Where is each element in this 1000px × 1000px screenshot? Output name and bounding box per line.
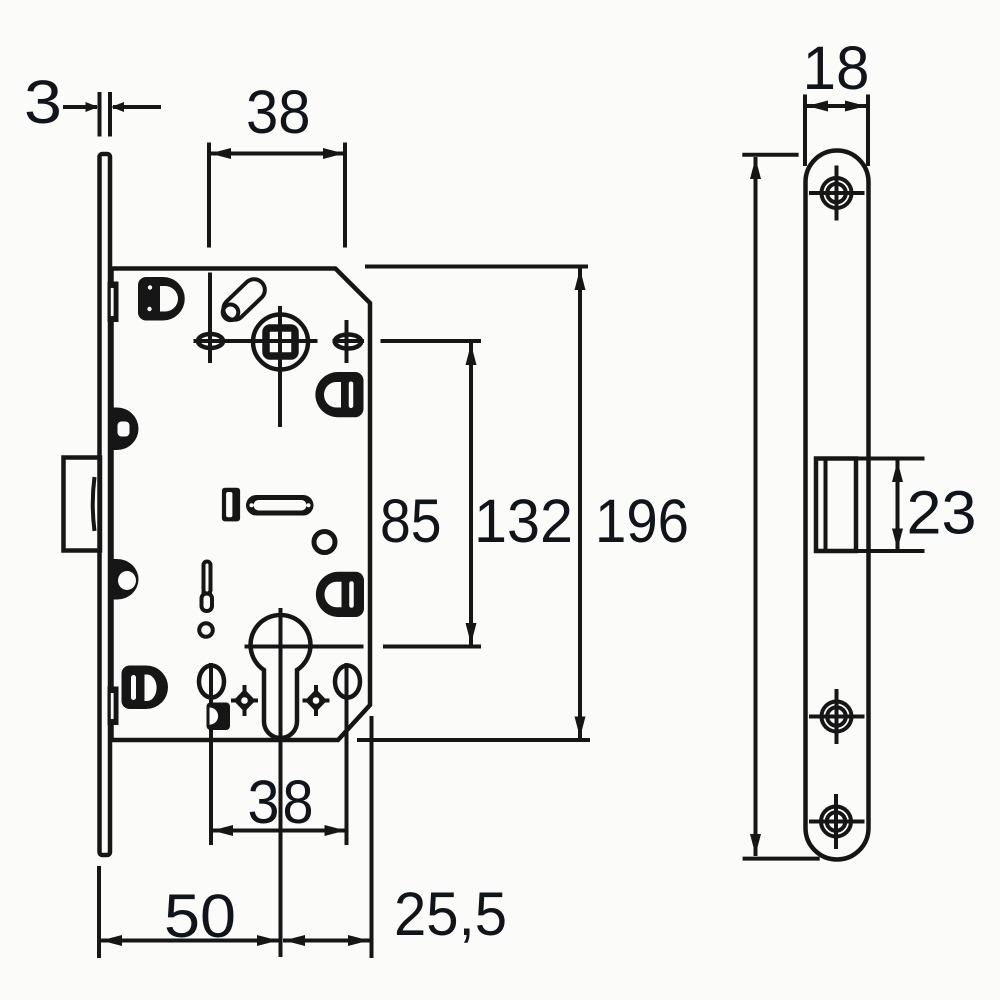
85 extension upper bbox=[381, 339, 482, 343]
D-tab top-left bbox=[138, 277, 185, 321]
small circle below exclamation bbox=[199, 623, 213, 637]
dim 25.5 line bbox=[283, 939, 370, 943]
right post vertical line bbox=[345, 320, 349, 363]
dim 132 line bbox=[578, 268, 582, 739]
edge bar B bbox=[108, 687, 119, 726]
18 dim extension lines bbox=[803, 95, 807, 167]
cylinder centerline horizontal bbox=[245, 645, 364, 649]
left post vertical line bbox=[208, 273, 212, 364]
euro cylinder keyhole bbox=[250, 615, 310, 738]
faceplate front view bbox=[806, 151, 869, 860]
196 dim line bbox=[754, 157, 758, 856]
svg-text:8: 8 bbox=[283, 768, 314, 836]
edge bump A bbox=[112, 408, 139, 451]
svg-text:3: 3 bbox=[24, 68, 62, 136]
faceplate strip (side view) bbox=[100, 154, 111, 855]
cylinder centerline vertical bbox=[279, 608, 283, 957]
extension lines above strip for dim 3 bbox=[98, 92, 102, 137]
18 dim line bbox=[806, 104, 867, 108]
svg-text:18: 18 bbox=[803, 34, 870, 102]
svg-text:196: 196 bbox=[595, 487, 689, 555]
screw hole top bbox=[809, 166, 865, 221]
D-tab right-upper bbox=[315, 372, 363, 417]
left ellipse post top bbox=[198, 334, 223, 348]
svg-text:132: 132 bbox=[474, 487, 573, 555]
dim 50 line bbox=[100, 939, 279, 943]
right ellipse post top bbox=[335, 335, 361, 349]
svg-text:85: 85 bbox=[380, 487, 442, 555]
D-ring below left oval bbox=[207, 703, 231, 731]
196 dim extension bottom bbox=[743, 857, 820, 861]
diamond marker right bbox=[303, 685, 330, 716]
D-tab right-mid bbox=[316, 572, 364, 617]
85 extension lower bbox=[383, 645, 481, 649]
svg-text:50: 50 bbox=[164, 882, 236, 950]
svg-text:3: 3 bbox=[248, 768, 280, 836]
angled capsule slot bbox=[223, 279, 264, 320]
D-tab bottom-left bbox=[122, 666, 169, 710]
small circle below pill bbox=[314, 532, 335, 553]
dimension 3 lines bbox=[63, 105, 97, 109]
oval post bottom-right bbox=[335, 666, 360, 698]
lock body outline bbox=[112, 269, 371, 741]
bottom dim 38 line bbox=[211, 829, 347, 833]
screw hole bottom bbox=[809, 794, 865, 849]
svg-text:23: 23 bbox=[907, 479, 977, 547]
pill slot bbox=[246, 495, 314, 516]
latch edge extension lines bbox=[856, 457, 925, 461]
spindle square bbox=[266, 328, 295, 356]
diamond marker left bbox=[231, 685, 258, 716]
svg-text:25,5: 25,5 bbox=[394, 880, 507, 948]
spindle hub circle bbox=[253, 315, 308, 370]
196 dim extension top bbox=[742, 153, 798, 157]
edge bump B bbox=[112, 559, 139, 600]
top dim 38 extension lines bbox=[207, 143, 211, 248]
right post horizontal line bbox=[333, 339, 365, 343]
edge bar A bbox=[108, 282, 119, 323]
hub centerline vertical bbox=[278, 306, 282, 427]
oval post bottom-left bbox=[199, 666, 224, 698]
exclamation slot bbox=[204, 562, 211, 594]
latch bolt (side view) bbox=[64, 458, 101, 551]
latch bolt front view bbox=[816, 459, 856, 552]
dimension 3 arrows bbox=[86, 102, 99, 112]
latch bevel arc bbox=[93, 477, 95, 531]
screw hole middle bbox=[809, 689, 865, 744]
vertical slot button bbox=[222, 488, 240, 522]
extension line body bottom right bbox=[357, 738, 590, 742]
extension below strip bbox=[97, 866, 101, 958]
top dim 38 line bbox=[209, 152, 345, 156]
extension right for 25.5 bbox=[370, 716, 374, 958]
dim 23 line bbox=[896, 460, 900, 551]
pin circle in slot bbox=[223, 305, 239, 321]
extension line body top right bbox=[365, 265, 588, 269]
dim 85 line bbox=[469, 343, 473, 645]
hub centerline horizontal bbox=[194, 339, 318, 343]
svg-text:38: 38 bbox=[246, 78, 311, 146]
